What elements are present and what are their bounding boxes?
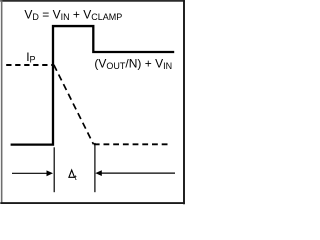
svg-text:VD = VIN + VCLAMP: VD = VIN + VCLAMP	[24, 8, 122, 23]
node zero-current dashed line	[94, 143, 171, 145]
node right delta-t marker	[94, 143, 96, 192]
wire right arrow shaft	[101, 172, 176, 174]
node IP level dashed line	[6, 64, 52, 66]
node left delta-t marker	[53, 147, 55, 192]
border frame top	[0, 0, 185, 2]
label delta symbol	[69, 170, 75, 177]
node left arrowhead	[47, 170, 54, 176]
svg-text:t: t	[75, 173, 78, 182]
border frame right	[183, 0, 185, 204]
border frame left	[1, 0, 3, 203]
border frame bottom	[0, 202, 185, 204]
svg-text:IP: IP	[26, 50, 35, 65]
wire left arrow shaft	[12, 172, 48, 174]
wire current ramp dashed diagonal	[54, 65, 94, 145]
wire drain-voltage waveform VD pulse	[11, 26, 175, 145]
node right arrowhead	[95, 170, 102, 176]
svg-text:(VOUT/N) + VIN: (VOUT/N) + VIN	[94, 56, 172, 71]
